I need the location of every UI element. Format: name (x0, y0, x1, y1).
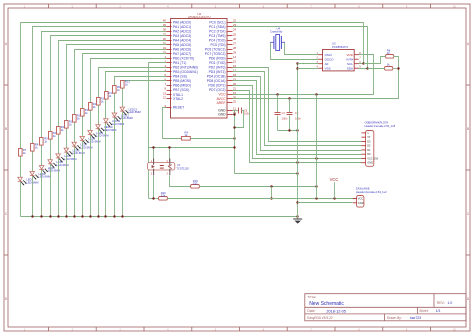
resistor R16 1k (97, 97, 107, 106)
resistor R8 1k (31, 142, 39, 151)
wire U2 pin row 9 to LED branch 10 (99, 68, 167, 217)
wire crystal to U3 OSCO (271, 43, 319, 60)
wire GND vertical to U1 net (234, 111, 236, 174)
svg-text:VCC (5V): VCC (5V) (367, 156, 378, 160)
svg-text:PA0 (ADC0): PA0 (ADC0) (173, 20, 191, 24)
connector ZASILANIE Header-Female-2.54_1x2 (353, 186, 387, 207)
svg-text:EasyEDA V5.9.22: EasyEDA V5.9.22 (307, 316, 333, 320)
svg-text:PD5 (OC1A): PD5 (OC1A) (207, 79, 226, 83)
svg-text:PB2 (INT2/AIN0): PB2 (INT2/AIN0) (173, 66, 198, 70)
title block (305, 294, 466, 321)
svg-text:VCC: VCC (330, 177, 339, 182)
op-amp U2 ATMEGA16A-PU microcontroller (171, 12, 228, 118)
LED LED5 LED-5MM (56, 154, 77, 162)
svg-text:24: 24 (233, 28, 237, 32)
node header GND junction (296, 161, 298, 163)
resistor R12 1k (65, 119, 75, 128)
wire U3 A0 to GND (298, 63, 319, 65)
svg-text:12: 12 (163, 95, 167, 99)
svg-text:PC3 (TMS): PC3 (TMS) (209, 34, 226, 38)
svg-text:U1: U1 (177, 163, 181, 167)
wire U3 VSS to GND (298, 68, 319, 70)
crystal U4 Crystal-8p (270, 26, 285, 50)
optocoupler U1 TCST1103 (148, 159, 190, 176)
resistor R5 1k (385, 63, 393, 71)
bus junction dots (31, 215, 298, 217)
svg-text:PA1 (ADC1): PA1 (ADC1) (173, 25, 191, 29)
svg-text:15: 15 (233, 59, 237, 63)
U2 left pin stubs and pin numbers (167, 23, 172, 108)
LED LED12 LED-5MM (112, 113, 133, 121)
svg-text:C3: C3 (295, 111, 299, 115)
svg-text:100n: 100n (282, 116, 288, 120)
wires PD2-PD7 to header ODBIORNIKPLOTA (233, 68, 362, 142)
svg-text:PA3 (ADC3): PA3 (ADC3) (173, 34, 191, 38)
LED LED6 LED-5MM (64, 148, 85, 156)
svg-text:kac723: kac723 (410, 316, 421, 320)
svg-text:A0: A0 (325, 62, 329, 66)
svg-text:PD0 (RXD): PD0 (RXD) (209, 57, 226, 61)
wire main GND vertical (297, 64, 299, 220)
LED LED10 LED-5MM (96, 125, 117, 133)
svg-text:PA5 (ADC5): PA5 (ADC5) (173, 43, 191, 47)
LED LED8 LED-5MM (80, 136, 101, 144)
svg-text:C4: C4 (282, 111, 286, 115)
wire SDA PC1 to U3 (233, 27, 368, 69)
wire U2 pin row 8 to LED branch 9 (91, 59, 167, 217)
svg-text:Date:: Date: (307, 309, 315, 313)
svg-text:PB1 (T1): PB1 (T1) (173, 61, 186, 65)
wire U1 top horizontal net (149, 147, 235, 149)
svg-text:Sheet:: Sheet: (419, 309, 428, 313)
svg-text:SCL: SCL (347, 62, 353, 66)
wire VCC net drop to header and ZASILANIE (316, 95, 318, 199)
svg-text:330: 330 (193, 182, 198, 186)
svg-text:PC4 (TDO): PC4 (TDO) (209, 39, 226, 43)
node VCC net label (330, 177, 339, 199)
wire AVCC net (233, 69, 399, 99)
wire SCL PC0 to U3 (233, 23, 364, 64)
resistor R17 1k (105, 91, 114, 99)
svg-text:New Schematic: New Schematic (309, 301, 344, 307)
svg-text:PB6 (MISO): PB6 (MISO) (173, 84, 191, 88)
svg-text:D3: D3 (367, 139, 371, 143)
resistor R21 1k (121, 79, 131, 88)
svg-text:Header-Female-2.54_1x2: Header-Female-2.54_1x2 (356, 190, 387, 194)
node header VCC junction (315, 157, 317, 159)
svg-text:27: 27 (233, 41, 237, 45)
svg-text:INT#: INT# (346, 57, 353, 61)
wire RESET to R4 (163, 108, 182, 139)
svg-text:LED-5MM: LED-5MM (129, 110, 142, 114)
resistor R6 1k (386, 48, 394, 58)
svg-text:RESET: RESET (173, 106, 184, 110)
resistor R7 1k (19, 148, 27, 156)
svg-text:26: 26 (233, 37, 237, 41)
wire U1 phototransistor to R19 (170, 176, 191, 187)
svg-text:REV:: REV: (437, 301, 445, 305)
wire VCC net (233, 55, 374, 95)
wire R19 net to VCC row (271, 187, 273, 199)
svg-text:TITLE:: TITLE: (307, 295, 316, 299)
svg-text:GND: GND (218, 113, 226, 117)
svg-text:AREF: AREF (217, 101, 226, 105)
wire U1 anode to top net (153, 148, 155, 163)
svg-text:PD1 (TXD): PD1 (TXD) (209, 61, 225, 65)
svg-text:1.0: 1.0 (448, 301, 453, 305)
wire R6 to SCL (364, 57, 386, 64)
svg-text:PA7 (ADC7): PA7 (ADC7) (173, 52, 191, 56)
svg-text:PA4 (ADC4): PA4 (ADC4) (173, 39, 191, 43)
resistor R20 22k (159, 191, 168, 200)
resistor R10 1k (49, 131, 59, 139)
wire VCC row y=198.6 (149, 198, 159, 200)
svg-text:PB3 (OC0/AIN1): PB3 (OC0/AIN1) (173, 70, 198, 74)
wire U2 pin row 7 to LED branch 8 (83, 54, 167, 217)
wire PB1 to R20/VCC net (149, 63, 167, 199)
LED LED7 LED-5MM (72, 142, 93, 150)
wire U2 pin row 2 to LED branch 3 (42, 32, 167, 217)
svg-text:28: 28 (233, 46, 237, 50)
svg-text:VCC: VCC (358, 197, 364, 201)
svg-text:PC0 (SCL): PC0 (SCL) (209, 20, 225, 24)
wire capacitor ground run (278, 130, 298, 132)
svg-text:VSS: VSS (325, 66, 331, 70)
capacitor C4 100n (275, 95, 288, 131)
resistor R4 1k (182, 130, 191, 140)
wire U1 emitter to R20 row (153, 176, 155, 199)
LED LED1 LED-5MM (18, 177, 39, 185)
svg-text:29: 29 (233, 50, 237, 54)
wire R20 to ZASILANIE VCC (168, 198, 357, 200)
svg-text:PC6 (TOSC1): PC6 (TOSC1) (205, 48, 226, 52)
wire U2 pin row 0 to LED branch 1 (21, 23, 167, 217)
ground bus wire (21, 216, 298, 218)
LED LED3 LED-5MM (39, 166, 60, 174)
svg-text:PD6 (ICP1): PD6 (ICP1) (208, 84, 225, 88)
wire U2 pin row 11 to LED branch 12 (115, 77, 167, 217)
svg-text:D0: D0 (367, 152, 371, 156)
wire U2 pin row 4 to LED branch 5 (59, 41, 167, 217)
svg-text:100n: 100n (295, 116, 301, 120)
svg-text:ATMEGA16A PU: ATMEGA16A PU (188, 15, 211, 19)
svg-text:1/1: 1/1 (436, 309, 441, 313)
svg-text:32: 32 (233, 99, 237, 103)
svg-text:XTAL2: XTAL2 (173, 97, 183, 101)
svg-text:PC1 (SDA): PC1 (SDA) (209, 25, 226, 29)
svg-text:LED-5MM: LED-5MM (104, 128, 117, 132)
capacitor C3 100n (287, 99, 302, 131)
wire U2 GND pins to C5 (233, 110, 235, 112)
svg-text:PB7 (SCK): PB7 (SCK) (173, 88, 189, 92)
svg-text:ZASILANIE: ZASILANIE (356, 186, 370, 190)
ground symbol (293, 218, 302, 220)
wire U2 pin row 5 to LED branch 6 (67, 45, 167, 217)
svg-text:GND: GND (358, 201, 364, 205)
svg-text:Drawn By:: Drawn By: (387, 316, 402, 320)
svg-text:PD2 (INT0): PD2 (INT0) (209, 66, 226, 70)
connector ODBIORNIKPLOTA Header-Female-2.54_1x8 (361, 121, 395, 167)
svg-text:PB4 (SS): PB4 (SS) (173, 75, 187, 79)
resistor R9 1k (40, 137, 49, 146)
wire GND row to ZASILANIE GND (298, 202, 353, 204)
svg-text:OSCO: OSCO (325, 57, 335, 61)
LED LED11 LED-5MM (104, 119, 125, 127)
svg-text:PC5 (TDI): PC5 (TDI) (210, 43, 225, 47)
wire GND stub run to main GND vertical (235, 173, 298, 175)
LED LED4 LED-5MM (48, 160, 69, 168)
svg-text:PA6 (ADC6): PA6 (ADC6) (173, 48, 191, 52)
svg-text:OSCI: OSCI (325, 53, 333, 57)
svg-text:PA2 (ADC2): PA2 (ADC2) (173, 29, 191, 33)
svg-text:PD7 (OC2): PD7 (OC2) (209, 88, 226, 92)
svg-text:ODBIORNIKPLOTA: ODBIORNIKPLOTA (365, 121, 389, 125)
svg-text:14: 14 (233, 55, 237, 59)
wire U1 collector to top net (169, 148, 171, 163)
svg-text:25: 25 (233, 32, 237, 36)
wire U2 pin row 10 to LED branch 11 (106, 72, 167, 217)
svg-text:SDA: SDA (347, 66, 353, 70)
svg-text:PCF8563T/3: PCF8563T/3 (332, 45, 348, 49)
svg-text:VT: VT (367, 135, 371, 139)
svg-text:D2: D2 (367, 144, 371, 148)
svg-text:TCST1103: TCST1103 (176, 167, 189, 171)
svg-text:Crystal-8p: Crystal-8p (270, 30, 283, 34)
svg-text:VDD: VDD (347, 53, 354, 57)
node junctions on GND vertical (233, 113, 235, 115)
svg-text:PC7 (TOSC2): PC7 (TOSC2) (205, 52, 226, 56)
svg-text:PD4 (OC1B): PD4 (OC1B) (207, 75, 226, 79)
wire R19 to VCC drop vertical (200, 186, 317, 188)
LED LED9 LED-5MM (88, 131, 109, 139)
wire C5 to GND vertical (235, 111, 244, 128)
resistor R18 1k (113, 85, 123, 93)
LED LED13 LED-5MM (120, 107, 141, 115)
svg-text:B: B (467, 127, 469, 131)
wire R5 to SDA (368, 68, 385, 70)
resistor R15 1k (89, 102, 99, 110)
svg-text:VCC: VCC (218, 93, 226, 97)
svg-text:PC2 (TCK): PC2 (TCK) (209, 29, 225, 33)
wire U2 pin row 1 to LED branch 2 (33, 27, 167, 217)
svg-text:GND: GND (367, 161, 373, 165)
wire R4 to GND net (191, 138, 235, 140)
op-amp U3 PCF8563T/3 RTC (316, 42, 361, 71)
svg-text:PB0 (XCK/T0): PB0 (XCK/T0) (173, 57, 194, 61)
svg-text:PD3 (INT1): PD3 (INT1) (209, 70, 226, 74)
svg-text:Header-Female-2.54_1x8: Header-Female-2.54_1x8 (365, 124, 396, 128)
wire U2 pin row 6 to LED branch 7 (75, 50, 167, 217)
resistor R14 1k (81, 108, 91, 116)
resistor R11 1k (57, 125, 66, 134)
svg-text:D1: D1 (367, 148, 371, 152)
capacitor C5 100n (239, 108, 251, 116)
svg-text:B: B (5, 127, 7, 131)
svg-text:PB5 (MOSI): PB5 (MOSI) (173, 79, 191, 83)
svg-text:2018-12-05: 2018-12-05 (326, 309, 345, 313)
resistor R19 330 (191, 179, 200, 188)
wire crystal to U3 OSCI (285, 43, 319, 55)
U2 right pin stubs and pin numbers (228, 23, 233, 115)
svg-text:LED-5MM: LED-5MM (39, 175, 52, 179)
resistor R13 1k (73, 114, 83, 122)
node R4-GND junction (233, 137, 235, 139)
wire U2 pin row 12 to LED branch 13 (123, 81, 167, 217)
svg-text:22k: 22k (161, 194, 166, 198)
wire U2 pin row 3 to LED branch 4 (51, 36, 167, 217)
svg-text:21: 21 (233, 87, 237, 91)
LED LED2 LED-5MM (30, 172, 51, 180)
